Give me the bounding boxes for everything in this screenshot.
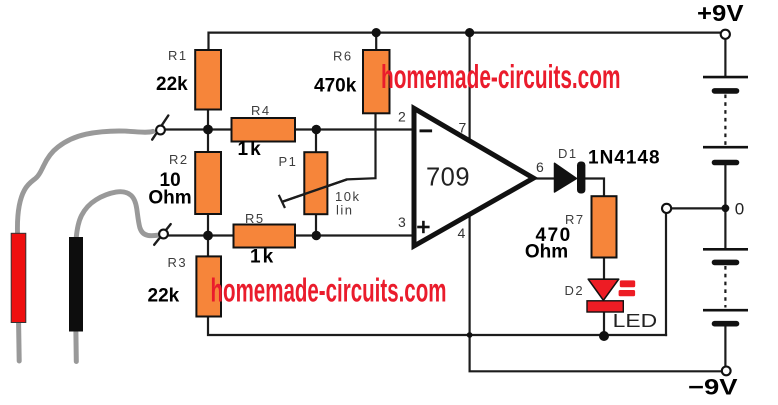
svg-text:2: 2	[398, 109, 406, 125]
svg-text:+9V: +9V	[697, 0, 744, 26]
svg-text:R4: R4	[251, 103, 271, 118]
svg-text:lin: lin	[336, 203, 354, 218]
svg-text:470k: 470k	[314, 76, 357, 97]
svg-text:22k: 22k	[148, 285, 180, 306]
svg-text:1N4148: 1N4148	[588, 148, 661, 169]
svg-text:0: 0	[735, 199, 744, 218]
svg-text:4: 4	[458, 225, 466, 241]
svg-text:homemade-circuits.com: homemade-circuits.com	[381, 58, 621, 95]
svg-text:−9V: −9V	[688, 375, 738, 400]
svg-text:Ohm: Ohm	[148, 187, 191, 208]
svg-text:3: 3	[398, 214, 406, 230]
svg-text:R3: R3	[168, 255, 188, 270]
svg-text:homemade-circuits.com: homemade-circuits.com	[211, 271, 447, 308]
svg-text:R2: R2	[169, 152, 189, 167]
svg-text:7: 7	[459, 120, 467, 136]
svg-text:Ohm: Ohm	[525, 241, 568, 262]
svg-text:LED: LED	[613, 310, 658, 331]
svg-text:1k: 1k	[250, 247, 275, 268]
svg-text:D1: D1	[558, 146, 578, 161]
svg-text:D2: D2	[565, 283, 585, 298]
svg-text:1k: 1k	[238, 139, 263, 160]
svg-text:R6: R6	[333, 49, 353, 64]
svg-text:P1: P1	[279, 154, 298, 169]
svg-text:R5: R5	[245, 211, 265, 226]
svg-text:22k: 22k	[156, 74, 188, 95]
svg-text:R1: R1	[168, 48, 188, 63]
svg-text:709: 709	[426, 164, 470, 192]
svg-text:6: 6	[536, 159, 544, 175]
